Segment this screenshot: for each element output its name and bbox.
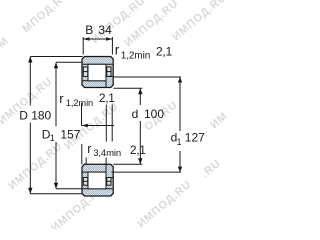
svg-text:B: B	[85, 23, 93, 37]
extension line left	[82, 37, 84, 55]
svg-text:r: r	[115, 42, 120, 57]
cage slot right (bottom section)	[107, 178, 111, 186]
top leader	[56, 61, 83, 63]
inner ring bottom edge (bottom section)	[82, 171, 106, 173]
loose flange seam (bottom section)	[105, 164, 107, 177]
roller (top section)	[88, 64, 106, 81]
bottom leader	[30, 193, 82, 195]
top section internal lines	[82, 64, 113, 87]
outer ring top edge (bottom section)	[82, 188, 113, 190]
dimension line (with text gap)	[29, 57, 31, 106]
svg-text:r: r	[59, 91, 64, 106]
roller (bottom section)	[88, 172, 106, 189]
dimension line (with text gap)	[179, 77, 181, 131]
top leader	[30, 56, 82, 58]
cage slot left (bottom section)	[83, 178, 87, 186]
svg-text:.RU: .RU	[199, 157, 223, 180]
chamfer leader scaffold (middle)	[82, 103, 115, 142]
dimension d1 127	[111, 77, 182, 172]
svg-text:ИМ: ИМ	[0, 35, 11, 56]
svg-text:r: r	[87, 142, 91, 156]
horizontal centre leader with left arrow	[82, 125, 115, 127]
svg-text:d: d	[132, 107, 139, 121]
bottom leader	[111, 171, 181, 173]
svg-text:1,2min: 1,2min	[121, 50, 150, 61]
svg-text:34: 34	[98, 23, 112, 37]
middle vertical leader	[105, 105, 107, 142]
left leader	[85, 158, 87, 165]
svg-text:1,2min: 1,2min	[66, 98, 93, 108]
dimension line (with text gap)	[55, 62, 57, 126]
cage slot right (top section)	[107, 67, 111, 77]
dimension B 34	[83, 37, 112, 55]
svg-text:2,1: 2,1	[156, 44, 173, 58]
cage slot left (top section)	[83, 67, 87, 77]
extension line right	[111, 37, 113, 55]
inner ring top edge (top section)	[82, 80, 106, 82]
chamfer leaders r 3,4min (bottom section)	[82, 144, 106, 164]
svg-text:127: 127	[185, 131, 205, 145]
svg-text:1: 1	[177, 137, 182, 147]
svg-text:D: D	[19, 109, 28, 123]
left outer leader	[81, 144, 83, 164]
svg-text:МПОД.RU: МПОД.RU	[20, 0, 72, 35]
dimension line (with text gap)	[139, 88, 141, 105]
svg-text:1: 1	[50, 133, 55, 143]
bottom leader (bore line extension)	[113, 163, 142, 165]
svg-text:ИМ: ИМ	[208, 110, 230, 131]
svg-text:ИМПОД.RU: ИМПОД.RU	[135, 178, 194, 229]
dimension d 100	[113, 88, 142, 164]
watermark background	[0, 0, 230, 234]
svg-text:3,4min: 3,4min	[93, 148, 121, 159]
dimension D1 157	[54, 62, 83, 189]
svg-text:180: 180	[31, 109, 51, 123]
outer ring bottom edge (top section)	[82, 63, 113, 65]
ring body (bottom section)	[82, 164, 113, 196]
loose flange seam (top section)	[105, 76, 107, 87]
top leader	[114, 87, 143, 89]
ring body (top section)	[82, 57, 113, 88]
svg-text:2,1: 2,1	[130, 143, 146, 157]
svg-text:100: 100	[144, 107, 164, 121]
dimension line	[83, 38, 112, 40]
bottom leader	[56, 188, 82, 190]
right leader	[105, 158, 107, 165]
right vertical leader	[111, 105, 113, 142]
dimension D 180	[28, 57, 83, 194]
top leader	[114, 76, 181, 78]
svg-text:2,1: 2,1	[99, 91, 115, 105]
left vertical leader	[81, 103, 83, 126]
svg-text:157: 157	[60, 128, 80, 142]
